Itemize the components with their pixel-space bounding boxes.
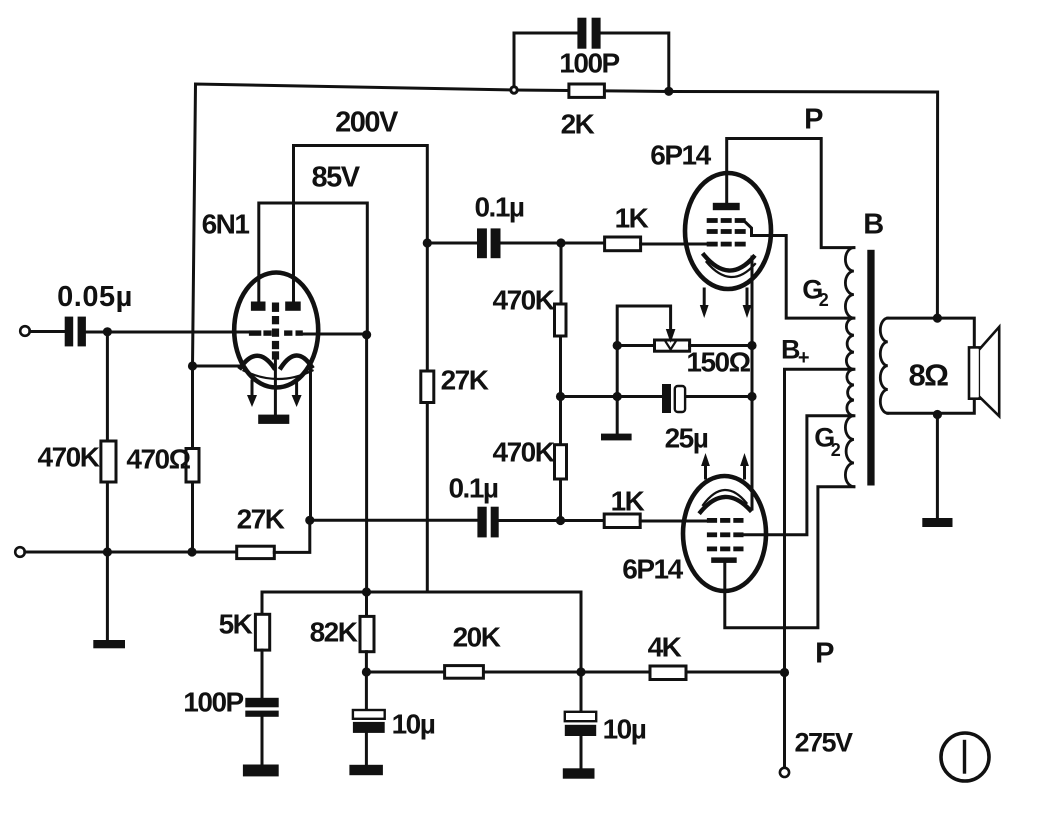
wire anode to transformer bottom xyxy=(725,487,854,628)
svg-text:20K: 20K xyxy=(453,622,501,653)
heater arrow left 6N1 xyxy=(251,381,254,396)
junction ground row node xyxy=(613,392,622,401)
filament arc left 6N1 xyxy=(241,356,274,368)
inner arc 6N1 xyxy=(244,371,313,380)
grid rows 6P14 lower (dashed) xyxy=(707,518,744,551)
ground (100P) xyxy=(243,765,279,777)
input terminal 2 xyxy=(15,547,25,557)
wire cap to 1K top xyxy=(501,242,605,245)
svg-text:470K: 470K xyxy=(493,437,555,468)
svg-text:4K: 4K xyxy=(648,632,682,663)
wire anode to transformer top xyxy=(727,139,854,248)
junction grid2 node xyxy=(362,330,371,339)
wire 100P loop right xyxy=(602,33,669,91)
junction at 2K right xyxy=(664,87,673,96)
wire 1K to lower 6P14 grid xyxy=(640,520,707,523)
ground (10u right) xyxy=(563,768,595,778)
svg-text:470K: 470K xyxy=(493,285,555,316)
anode left 6N1 xyxy=(251,302,266,311)
wire 27K down to H1 xyxy=(426,403,429,593)
junction B+ rail xyxy=(780,668,789,677)
wire 470ohm to lower line xyxy=(191,482,194,552)
wire 27K to cathode corner xyxy=(274,520,310,552)
transformer secondary winding xyxy=(880,318,888,413)
capacitor 0.1u (bottom) xyxy=(477,507,498,538)
ground (6N1 cathode) xyxy=(258,415,289,424)
resistor 470ohm xyxy=(186,449,199,483)
junction secondary top xyxy=(933,314,942,323)
resistor 5K xyxy=(255,614,269,650)
ground (cathode network) xyxy=(601,434,632,441)
wire node down to 470ohm xyxy=(191,366,194,449)
svg-text:27K: 27K xyxy=(237,504,285,535)
resistor 1K (top) xyxy=(605,237,641,251)
svg-text:1K: 1K xyxy=(611,486,645,517)
ground (input) xyxy=(93,640,125,648)
wire to ground (input) xyxy=(106,552,109,640)
svg-text:2K: 2K xyxy=(561,109,595,140)
svg-text:470K: 470K xyxy=(38,442,100,473)
capacitor 0.1u (top) xyxy=(477,228,501,258)
wire pot node to ground xyxy=(616,346,619,434)
svg-text:5K: 5K xyxy=(219,609,253,640)
resistor 27K (horizontal) xyxy=(237,546,275,558)
capacitor 25u (electrolytic) xyxy=(662,384,671,413)
wire bottom coupling row xyxy=(310,519,478,522)
cathode arc 6P14 upper xyxy=(704,255,754,271)
wire 470K to bottom row xyxy=(559,479,562,521)
junction input node xyxy=(103,327,112,336)
junction 82K bottom xyxy=(362,667,371,676)
svg-text:2: 2 xyxy=(819,290,829,310)
cathode arc 6P14 lower (thick) xyxy=(701,497,751,512)
wire 5K to 100P xyxy=(261,650,264,698)
resistor 20K xyxy=(445,666,484,679)
wire 0.05u to 6N1 grid xyxy=(86,331,249,334)
transformer core xyxy=(867,250,874,486)
grid row 6N1 (dashed) xyxy=(249,330,303,335)
potentiometer 150ohm xyxy=(655,340,690,351)
wire 150ohm row left xyxy=(617,344,654,347)
junction bottom row node xyxy=(556,516,565,525)
svg-text:P: P xyxy=(804,104,823,136)
resistor 470K (input) xyxy=(101,441,116,482)
heater arrow right 6P14 lower xyxy=(743,465,746,478)
svg-text:0.1µ: 0.1µ xyxy=(474,192,523,223)
resistor 4K xyxy=(650,666,686,680)
capacitor 0.05u xyxy=(65,317,86,347)
svg-text:0.05µ: 0.05µ xyxy=(57,281,133,313)
resistor 1K (bottom) xyxy=(604,514,640,528)
wire B+ tap to supply terminal xyxy=(785,369,854,767)
junction cathode tap node xyxy=(305,516,314,525)
wire screen grid to lower G2 tap xyxy=(744,416,854,535)
tube 6P14 lower envelope xyxy=(683,476,766,591)
wire secondary top xyxy=(888,318,975,347)
capacitor 10u (left electrolytic) xyxy=(365,672,368,710)
tube 6N1 envelope xyxy=(234,273,318,388)
junction donut at 2K left xyxy=(509,85,518,94)
svg-text:2: 2 xyxy=(831,440,841,460)
wire 100P to ground xyxy=(261,717,264,765)
wire right cathode down to tap node xyxy=(309,367,312,520)
svg-text:470Ω: 470Ω xyxy=(126,444,190,475)
svg-text:100P: 100P xyxy=(183,687,243,718)
inner arc 6P14 upper xyxy=(707,262,756,277)
svg-text:10µ: 10µ xyxy=(603,714,646,745)
svg-text:B: B xyxy=(863,209,883,241)
wire 1K to 6P14 grid xyxy=(641,243,707,246)
junction pot left node xyxy=(613,341,622,350)
wiper arrow 150ohm xyxy=(666,329,676,343)
wire secondary bottom xyxy=(888,399,975,414)
wire 100P loop left xyxy=(514,33,576,90)
wire cathode left lead xyxy=(193,365,242,368)
wire 470K to mid node xyxy=(559,336,562,397)
junction 470K mid node xyxy=(556,392,565,401)
wire 82K to bottom rail xyxy=(365,652,368,672)
wire shared cathode line xyxy=(751,257,754,509)
wire top row to cap xyxy=(427,242,477,245)
svg-text:10µ: 10µ xyxy=(392,709,435,740)
resistor 470K (lower middle) xyxy=(555,445,567,479)
svg-text:150Ω: 150Ω xyxy=(686,347,750,378)
heater arrow left 6P14 upper xyxy=(703,289,706,306)
svg-text:0.1µ: 0.1µ xyxy=(448,473,497,504)
junction cathode line bottom node xyxy=(747,392,756,401)
wire screen grid to G2 tap xyxy=(746,223,854,319)
junction 20K right xyxy=(576,667,585,676)
wiper notch 150ohm xyxy=(666,342,676,350)
tube 6P14 upper envelope xyxy=(685,173,771,289)
wire 470K upper chain xyxy=(560,243,563,304)
figure number circle 1 xyxy=(941,733,989,781)
resistor 2K xyxy=(569,84,605,97)
anode 6P14 upper xyxy=(713,203,740,210)
svg-text:+: + xyxy=(798,347,809,369)
wire supply row H1 xyxy=(262,592,581,672)
capacitor 10u (right electrolytic) xyxy=(580,672,583,712)
wire speaker to ground xyxy=(936,415,939,519)
svg-text:6P14: 6P14 xyxy=(650,140,711,171)
wire mid node to lower 470K xyxy=(559,397,562,445)
wire lower input line xyxy=(25,551,237,554)
svg-text:6P14: 6P14 xyxy=(622,554,683,585)
wire 470K to lower line xyxy=(106,482,109,552)
resistor 82K xyxy=(360,616,374,651)
wire left anode to 85V bracket to grid2 node xyxy=(259,203,368,335)
wire node down to 470K xyxy=(106,332,109,441)
junction top coupling row xyxy=(423,238,432,247)
svg-text:1K: 1K xyxy=(615,203,649,234)
capacitor 100P (feedback) xyxy=(577,18,600,49)
svg-text:275V: 275V xyxy=(794,728,853,758)
cathode column 6N1 (dashed) xyxy=(272,303,279,360)
anode right 6N1 xyxy=(285,302,301,311)
ground (10u left) xyxy=(349,765,383,775)
filament arc right 6N1 xyxy=(281,355,312,367)
svg-text:82K: 82K xyxy=(310,617,358,648)
wire right anode to 200V bracket to 27K xyxy=(294,146,428,372)
wire 25u row xyxy=(561,395,753,398)
wire grid2 exit to node xyxy=(303,333,367,336)
terminal 275V xyxy=(780,768,789,777)
inner arc 6P14 lower (thin) xyxy=(703,490,747,505)
heater arrow left 6P14 lower xyxy=(704,465,707,478)
junction 470ohm bottom xyxy=(187,547,196,556)
junction secondary bottom xyxy=(933,410,942,419)
speaker driver xyxy=(969,347,980,398)
anode 6P14 lower xyxy=(711,557,737,563)
heater arrow right 6P14 upper xyxy=(746,289,749,306)
svg-text:25µ: 25µ xyxy=(665,423,708,454)
junction 470K bottom xyxy=(103,547,112,556)
ground (speaker) xyxy=(922,518,952,527)
junction node B xyxy=(362,587,371,596)
wire bottom supply rail xyxy=(366,671,784,674)
resistor 27K (vertical) xyxy=(421,371,434,403)
svg-text:85V: 85V xyxy=(311,162,360,194)
svg-text:27K: 27K xyxy=(441,365,489,396)
junction 470K top node xyxy=(556,238,565,247)
svg-text:100P: 100P xyxy=(559,48,619,79)
transformer primary winding xyxy=(845,248,854,487)
wire input to 0.05u xyxy=(30,330,65,333)
wire cap to 1K bottom xyxy=(499,519,605,522)
junction cathode line top node xyxy=(747,341,756,350)
junction feedback / cathode node xyxy=(188,361,197,370)
capacitor 100P (bottom) xyxy=(245,698,278,717)
speaker horn xyxy=(980,327,999,416)
svg-text:6N1: 6N1 xyxy=(202,209,250,240)
wire node B to 82K xyxy=(365,592,368,616)
input terminal 1 xyxy=(20,326,30,336)
wire 5K branch xyxy=(261,592,264,614)
wire grid2 node down to supply node B xyxy=(365,335,368,592)
svg-text:200V: 200V xyxy=(335,107,399,139)
resistor 470K (upper middle) xyxy=(555,304,567,336)
wiper wire 150ohm xyxy=(617,306,670,346)
heater arrow right 6N1 xyxy=(295,381,298,396)
wire 150ohm row right xyxy=(690,344,752,347)
grid rows 6P14 upper (dashed) xyxy=(707,218,746,246)
wire feedback rail (left vertical, top horizontal, right vertical) xyxy=(193,84,938,366)
svg-text:8Ω: 8Ω xyxy=(908,358,948,393)
wire cathode center to ground xyxy=(274,360,277,415)
svg-text:P: P xyxy=(815,638,834,670)
